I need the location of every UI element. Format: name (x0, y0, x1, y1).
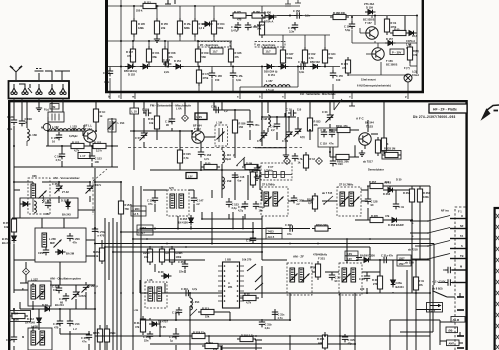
svg-text:R 036: R 036 (239, 122, 246, 126)
svg-text:74S3: 74S3 (268, 230, 275, 234)
FM label box (50, 104, 59, 110)
capacitor C307 (172, 307, 182, 315)
svg-text:100k: 100k (176, 255, 182, 259)
svg-text:470k: 470k (203, 76, 209, 80)
svg-text:250 k: 250 k (136, 9, 143, 13)
svg-text:3,2n: 3,2n (305, 14, 311, 18)
svg-text:10,7: 10,7 (213, 50, 219, 54)
svg-text:C 2S4: C 2S4 (44, 199, 52, 203)
wire x340 to y293 (339, 293, 341, 300)
svg-text:+14S3: +14S3 (139, 226, 147, 230)
svg-text:(M): (M) (449, 329, 453, 333)
svg-text:N: N (191, 305, 193, 309)
svg-text:47k: 47k (314, 123, 319, 127)
svg-text:Fld - Seitenteilw - Mischstufe: Fld - Seitenteilw - Mischstufe (300, 92, 336, 96)
svg-text:T 1S1: T 1S1 (85, 127, 92, 131)
capacitor C147 (191, 195, 204, 206)
capacitor C165 150 (209, 70, 223, 82)
svg-text:R 158: R 158 (169, 51, 176, 55)
svg-text:R 159: R 159 (202, 51, 209, 55)
svg-text:ZTh 33A: ZTh 33A (364, 2, 374, 6)
resistor R308 22k horizontal (189, 331, 208, 339)
capacitor C160b (330, 147, 343, 166)
diode D309 (158, 270, 172, 278)
resistor R109 horizontal (201, 162, 220, 170)
svg-text:47n: 47n (148, 202, 153, 206)
wire bottom horizontal y348 (222, 347, 262, 349)
svg-text:C 310: C 310 (181, 287, 188, 291)
svg-text:47n: 47n (82, 339, 87, 343)
capacitor C162 3,3n horizontal (298, 60, 306, 74)
svg-text:R 2S8: R 2S8 (93, 250, 101, 254)
wire bus y228.5 long (141, 228, 310, 230)
svg-text:C 3S: C 3S (359, 277, 365, 281)
svg-text:10k 370: 10k 370 (242, 258, 252, 262)
wire x14 segment (13, 146, 15, 167)
capacitor C102 (51, 132, 62, 143)
resistor R205 (159, 246, 172, 265)
svg-text:47n: 47n (45, 212, 50, 216)
svg-text:10k: 10k (4, 225, 9, 229)
diode D156 (310, 60, 321, 69)
svg-text:47k: 47k (135, 325, 140, 329)
svg-text:BA 243: BA 243 (62, 213, 71, 217)
boxed label L1C (130, 108, 139, 114)
svg-text:BF 494: BF 494 (193, 124, 202, 128)
wire y320 to left bundle (140, 319, 145, 321)
svg-text:R 3S7: R 3S7 (369, 180, 377, 184)
wire ic area (154, 264, 156, 272)
svg-text:R 05: R 05 (394, 28, 400, 32)
wire bottom stubs (175, 345, 177, 350)
svg-text:C 31: C 31 (399, 205, 405, 209)
capacitor C103 (19, 117, 32, 126)
svg-text:BC 308 B: BC 308 B (386, 62, 398, 66)
svg-text:ab 7S17: ab 7S17 (363, 160, 373, 164)
svg-text:C 160: C 160 (231, 25, 238, 29)
svg-text:L 1S4: L 1S4 (118, 121, 125, 125)
resistor R103 4,7k horizontal (68, 141, 87, 153)
svg-text:C 157: C 157 (344, 25, 351, 29)
svg-text:R 1S3: R 1S3 (72, 141, 80, 145)
junction dots on middle buses (94, 218, 413, 337)
svg-text:BC 528 B: BC 528 B (363, 18, 375, 22)
svg-text:50k: 50k (257, 26, 262, 30)
svg-text:91k: 91k (144, 255, 149, 259)
capacitor C311 (393, 201, 405, 209)
diode D306 BA3W horizontal (360, 254, 375, 263)
svg-text:D50 904 b): D50 904 b) (124, 69, 137, 73)
resistor R191 horizontal with diode (390, 28, 418, 39)
resistor R167 500k (280, 47, 294, 66)
svg-text:R1SL 47k: R1SL 47k (336, 124, 348, 128)
wire bus y219 (202, 212, 262, 219)
svg-text:C 31x 47n: C 31x 47n (381, 254, 394, 258)
svg-text:R 105: R 105 (138, 22, 145, 26)
svg-text:L 157: L 157 (266, 79, 273, 83)
svg-text:R3S3 560: R3S3 560 (316, 223, 328, 227)
svg-text:L2Y: L2Y (188, 174, 193, 178)
test point diamond demod (284, 158, 291, 165)
boxed +15V with arrow (427, 303, 443, 313)
svg-text:AM - Oscillatorspulen: AM - Oscillatorspulen (50, 277, 81, 281)
svg-text:C 1S7c: C 1S7c (93, 183, 102, 187)
resistor R156 680k (177, 18, 191, 37)
svg-text:A: A (228, 281, 230, 285)
svg-text:1N 4150: 1N 4150 (178, 220, 188, 224)
svg-text:R 314: R 314 (134, 321, 141, 325)
svg-text:C 1S0: C 1S0 (336, 162, 344, 166)
svg-text:NF: NF (460, 224, 464, 228)
svg-text:F 0?: F 0? (268, 165, 274, 169)
svg-text:Db 274–2/397/76000–093: Db 274–2/397/76000–093 (413, 115, 456, 119)
resistor R311 vertical (310, 261, 321, 280)
svg-text:C 306: C 306 (285, 223, 292, 227)
svg-text:R 186 200: R 186 200 (333, 11, 346, 15)
resistor R152 4,7k (302, 47, 316, 66)
svg-text:R 172: R 172 (341, 62, 348, 66)
resistor R157 47k (126, 46, 136, 65)
capacitor C142 (292, 153, 305, 164)
svg-text:4,7n: 4,7n (7, 127, 13, 131)
svg-text:G: G (118, 95, 120, 99)
wire verticals midband (211, 219, 213, 244)
svg-text:C 1S8: C 1S8 (25, 117, 33, 121)
diode D201 BA243 (66, 199, 71, 210)
svg-text:C 147: C 147 (197, 199, 204, 203)
capacitor C128 90 (365, 196, 378, 207)
svg-text:L 2S5: L 2S5 (49, 237, 56, 241)
capacitor C116 (232, 172, 245, 182)
svg-text:47k: 47k (342, 66, 347, 70)
wire x222 y350 (220, 346, 222, 350)
svg-text:T 1S3: T 1S3 (366, 125, 373, 129)
svg-text:R 15L: R 15L (184, 22, 191, 26)
earth/ground antenna symbol (35, 69, 44, 81)
svg-text:D 3S2 BA3W: D 3S2 BA3W (388, 223, 404, 227)
resistor R116 vertical (381, 135, 386, 154)
svg-text:C1PA A: C1PA A (406, 39, 415, 43)
svg-text:15mI mount: 15mI mount (361, 78, 376, 82)
resistor R151 66k (146, 46, 160, 65)
variable arrow in box2 (54, 240, 62, 248)
capacitor C192 10n (253, 201, 266, 212)
wire zf row (261, 190, 263, 201)
diode D307 BA344 vertical (391, 277, 405, 289)
wire second rail y15.5 (230, 15, 417, 17)
svg-text:C 165: C 165 (215, 74, 222, 78)
svg-text:0,47µ: 0,47µ (231, 28, 238, 32)
svg-text:TA: TA (460, 234, 463, 238)
resistor R307 10k horizontal (367, 180, 390, 189)
resistor R305 100k (93, 326, 103, 345)
svg-text:ab 7 515: ab 7 515 (322, 191, 333, 195)
svg-text:3,3n: 3,3n (289, 29, 295, 33)
svg-text:R 3S0: R 3S0 (423, 191, 431, 195)
svg-text:L 2S7: L 2S7 (31, 278, 38, 282)
svg-text:270: 270 (360, 287, 365, 291)
svg-text:BA 244: BA 244 (2, 241, 11, 245)
resistor R306b 600k (104, 326, 116, 345)
svg-text:C 08: C 08 (211, 105, 217, 109)
capacitor at terminal 282 (438, 279, 453, 285)
svg-text:L 1S3: L 1S3 (70, 125, 77, 129)
svg-text:C 2YB: C 2YB (98, 230, 106, 234)
svg-text:L 2: L 2 (73, 327, 77, 331)
variable coil L104 (108, 119, 125, 132)
resistor R106 10k (148, 113, 160, 132)
capacitor C205 (43, 247, 49, 255)
svg-text:66k: 66k (153, 55, 158, 59)
capacitor C305 47n (81, 332, 92, 343)
svg-text:4,7k: 4,7k (308, 201, 314, 205)
ZF-Sperrkreis trap 2 label box (255, 42, 285, 55)
resistor R155 22k (154, 18, 168, 37)
switch ab7515 (323, 196, 333, 205)
resistor R313 47k vertical (413, 274, 424, 293)
diode D157 (385, 37, 396, 45)
AM band box 1 (20, 198, 78, 218)
svg-text:1(0): 1(0) (300, 135, 305, 139)
svg-text:C 1V: C 1V (286, 108, 292, 112)
coil L109 (222, 177, 232, 189)
svg-text:R 05: R 05 (205, 162, 211, 166)
svg-text:C 05s: C 05s (253, 123, 260, 127)
wire x86 osc top (85, 292, 87, 309)
wire x355 upper segment (354, 293, 356, 296)
svg-text:C 212: C 212 (53, 322, 60, 326)
coil L205 (42, 233, 47, 247)
wire demod row y43 (352, 42, 417, 44)
ZF-Sperrkreis trap 1 label box (198, 42, 230, 55)
svg-text:K: K (22, 287, 24, 291)
svg-text:BC 544: BC 544 (365, 121, 374, 125)
svg-text:R 3S: R 3S (244, 293, 250, 297)
capacitor C313 90 (329, 272, 341, 283)
wire bus y247 (105, 246, 370, 248)
voltage box -30V (390, 49, 404, 55)
svg-text:NF ins: NF ins (441, 209, 449, 213)
test point diamond AM (23, 268, 30, 275)
svg-text:C 2S5 p: C 2S5 p (89, 284, 99, 288)
ground below R155 (154, 36, 160, 42)
svg-text:F 1: F 1 (458, 210, 462, 214)
resistor R119 (250, 169, 262, 188)
resistor R202 760 (118, 198, 132, 217)
capacitor C05x (247, 119, 260, 127)
resistor R201 10k (3, 216, 17, 235)
svg-text:R 167: R 167 (287, 52, 294, 56)
resistor R160 horizontal (249, 10, 268, 18)
top sub-board frame left border (105, 0, 108, 93)
svg-text:R(M): R(M) (413, 49, 419, 53)
wire y260 left (86, 255, 95, 257)
capacitor C121 2,2 (270, 121, 280, 132)
capacitor C208 100 (52, 285, 62, 294)
capacitor at terminal 270 (443, 267, 453, 273)
svg-text:M: M (22, 335, 24, 339)
caps at top cut edge (285, 0, 301, 6)
svg-text:C 3S9: C 3S9 (178, 260, 186, 264)
diode D203 BA244 (55, 250, 66, 255)
antenna connector box (9, 81, 70, 99)
svg-text:BA 2M: BA 2M (66, 252, 74, 256)
resistor R158 47k (162, 46, 176, 65)
svg-text:AM?: AM? (449, 342, 455, 346)
svg-text:TB: TB (460, 254, 464, 258)
variable capacitor C151 (135, 130, 148, 141)
resistor R113 (375, 137, 388, 156)
ZF filter dashed box 1 (10,7MHz) (261, 183, 288, 217)
capacitor C206 47n (67, 233, 73, 241)
svg-text:470: 470 (237, 18, 242, 22)
capacitor C108 1,2 (211, 105, 228, 114)
svg-text:560: 560 (202, 55, 207, 59)
switch crossing top border (334, 99, 342, 110)
IF transformer dashed box F102 (167, 186, 189, 216)
svg-text:R 175: R 175 (234, 10, 241, 14)
stubs from antenna box into main board (14, 99, 63, 103)
svg-text:L 10: L 10 (132, 110, 138, 114)
svg-text:C 2S6: C 2S6 (73, 237, 81, 241)
svg-text:BF L.L: BF L.L (84, 124, 92, 128)
svg-text:L 1Y: L 1Y (80, 154, 86, 158)
wire bus y252 (113, 251, 262, 253)
svg-text:R 033: R 033 (314, 120, 321, 124)
diode D305 1N4148 (178, 215, 193, 226)
wire top area mesh (261, 102, 263, 117)
resistor R175 470 horizontal (230, 10, 249, 22)
svg-text:ab 7218: ab 7218 (408, 248, 418, 252)
variable capacitor C285 (82, 282, 99, 293)
svg-text:470/460kHz: 470/460kHz (313, 253, 328, 257)
svg-text:1 BB: 1 BB (225, 258, 231, 262)
IC A281 dual inline block (218, 258, 252, 309)
svg-text:ZF 10,7MHz: ZF 10,7MHz (339, 183, 354, 187)
svg-text:L 1S9: L 1S9 (225, 179, 232, 183)
resistor R154 1,2k (192, 18, 206, 37)
svg-text:47n: 47n (329, 142, 334, 146)
ceramic filter F101 dashed box (261, 163, 292, 180)
boxed label L2Y (186, 173, 197, 179)
svg-text:100: 100 (95, 160, 100, 164)
resistor R309 boxed 4,7k (240, 293, 259, 305)
svg-text:270: 270 (373, 282, 378, 286)
capacitor C316 4,7n (272, 309, 285, 320)
svg-text:C 30: C 30 (246, 239, 252, 243)
variable capacitor C123b (322, 110, 334, 123)
svg-text:10,7: 10,7 (266, 50, 272, 54)
svg-text:15S7: 15S7 (399, 257, 406, 261)
antenna dipole symbol (10, 66, 22, 80)
svg-text:C 3S5: C 3S5 (81, 336, 89, 340)
svg-text:HF - ZF - Platte: HF - ZF - Platte (433, 108, 457, 112)
resistor R163 (254, 19, 265, 38)
resistor R186 200 horizontal (330, 11, 349, 20)
svg-text:R 166: R 166 (235, 51, 242, 55)
svg-text:6S0k: 6S0k (110, 331, 117, 335)
svg-text:2,2: 2,2 (271, 128, 275, 132)
svg-text:281: 281 (228, 285, 233, 289)
svg-text:C 119: C 119 (320, 142, 327, 146)
svg-text:D 3S: D 3S (160, 325, 166, 329)
svg-text:47µ: 47µ (348, 341, 353, 345)
capacitor C103b 47n (147, 195, 158, 206)
svg-text:C 15L: C 15L (236, 74, 243, 78)
capacitor C305b 22n (143, 331, 153, 342)
wire top rail y6 (108, 5, 300, 7)
dashed gang diagonal (93, 169, 107, 181)
wire bottom left verticals to edge (13, 346, 15, 350)
svg-text:R 151: R 151 (153, 51, 160, 55)
boxed label 0,3V (345, 251, 358, 261)
capacitor C152 4,7n (198, 149, 212, 161)
wire y356 stub (255, 340, 257, 344)
svg-text:1N 47S?: 1N 47S? (158, 320, 169, 324)
svg-text:R 313: R 313 (202, 307, 209, 311)
capacitor C159 (288, 22, 298, 33)
svg-text:4,7k: 4,7k (74, 149, 80, 153)
boxed label L903 highlighted (195, 113, 207, 120)
diode D204 (20, 202, 31, 207)
wire y167 extend (14, 166, 55, 168)
svg-text:D 157: D 157 (386, 37, 393, 41)
boxed label 7403/JL05 (266, 228, 282, 239)
wire x288 zf link (287, 200, 289, 202)
AM-ZF filter dashed box 2 (339, 263, 362, 295)
resistor R313b 22k horizontal (198, 307, 217, 319)
capacitor C314 (359, 273, 370, 291)
far right terminal column (496, 214, 499, 349)
capacitor C161 (245, 22, 258, 30)
svg-text:ZF - Sperrkreis: ZF - Sperrkreis (200, 43, 219, 47)
wire x209 y339-344 (208, 339, 210, 344)
svg-text:C2S5: C2S5 (6, 338, 13, 342)
mixer circle M101 (41, 123, 51, 130)
svg-text:P – 30V: P – 30V (392, 50, 401, 54)
capacitor C110 4,7n (55, 151, 66, 162)
svg-text:3,3n: 3,3n (236, 78, 242, 82)
svg-text:R 1S2: R 1S2 (94, 141, 102, 145)
svg-text:R 3S4: R 3S4 (317, 337, 325, 341)
resistor R134 47k horizontal boxed (334, 124, 353, 133)
svg-text:R 033 1M: R 033 1M (384, 147, 395, 151)
svg-text:D 159: D 159 (366, 6, 373, 10)
svg-text:AM - ZF: AM - ZF (293, 255, 304, 259)
boxed AM label (447, 340, 460, 346)
svg-text:1,2: 1,2 (224, 109, 228, 113)
test point diamond (176, 107, 188, 122)
svg-text:1,5 µH: 1,5 µH (266, 88, 274, 92)
resistor R114 150 horizontal (242, 162, 261, 174)
boxed label L1Y7 (78, 153, 90, 159)
wire left AM bus y190 (14, 189, 20, 191)
resistor R115 20k horizontal (333, 154, 352, 163)
capacitor C204 47n (45, 200, 51, 208)
capacitor C310 4,7u (181, 287, 198, 296)
svg-text:4,7n: 4,7n (278, 316, 284, 320)
svg-text:900k: 900k (13, 318, 19, 322)
top sub-board frame right border (422, 0, 424, 93)
svg-text:L(1): L(1) (412, 70, 417, 74)
svg-text:C 1S6: C 1S6 (142, 108, 150, 112)
svg-text:10mA: 10mA (412, 73, 419, 77)
svg-text:R 315: R 315 (206, 341, 213, 345)
svg-text:4,7n: 4,7n (56, 158, 62, 162)
resistor R312 270 vertical (372, 273, 383, 292)
svg-text:R 12: R 12 (310, 157, 316, 161)
svg-text:R 0M: R 0M (246, 162, 252, 166)
